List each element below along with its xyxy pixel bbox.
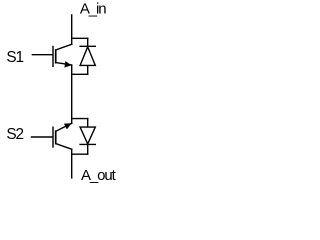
svg-text:S2: S2 — [6, 126, 23, 143]
svg-text:A_in: A_in — [80, 0, 106, 17]
svg-text:A_out: A_out — [81, 167, 117, 184]
svg-text:S1: S1 — [6, 49, 23, 66]
